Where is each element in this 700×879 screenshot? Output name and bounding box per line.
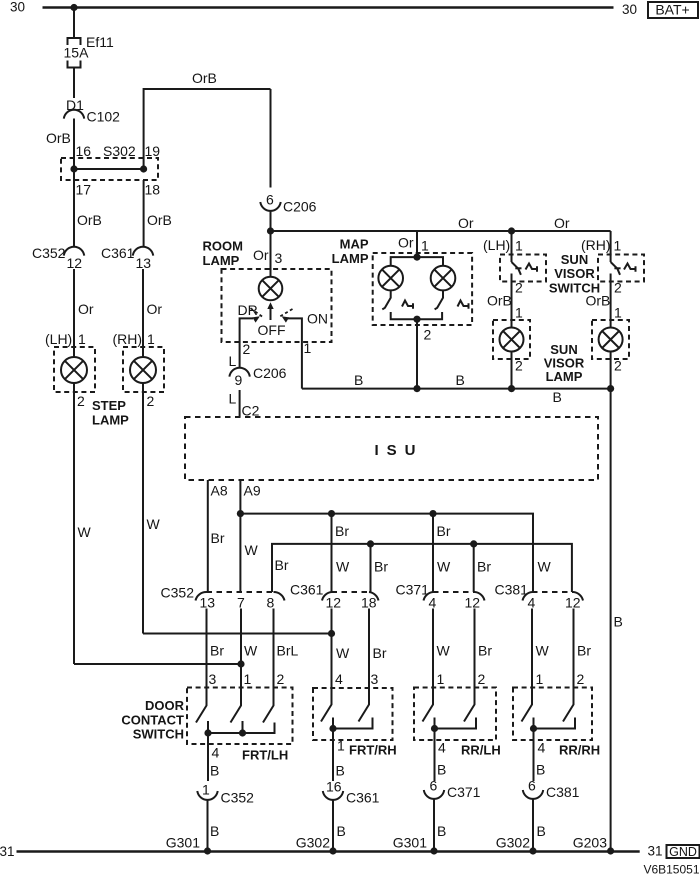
svg-text:2: 2 xyxy=(577,671,585,687)
connector C206 pin 9 xyxy=(229,365,286,388)
svg-text:Br: Br xyxy=(374,559,388,575)
svg-text:12: 12 xyxy=(565,595,581,611)
svg-text:DR: DR xyxy=(238,302,258,318)
svg-text:Br: Br xyxy=(478,643,492,659)
room lamp switch position dashes xyxy=(251,308,264,317)
svg-text:G302: G302 xyxy=(296,835,330,851)
map lamp common bar xyxy=(391,312,442,319)
svg-text:C381: C381 xyxy=(495,582,529,598)
wire C361-12 to door switch pin 4 (W) xyxy=(332,609,351,689)
wire down to C206 pin 6 xyxy=(270,89,272,188)
svg-text:12: 12 xyxy=(465,595,481,611)
node Or distribution xyxy=(267,227,274,234)
node map lamp branch xyxy=(413,254,420,261)
connector C352 pin 1 xyxy=(197,782,254,806)
wire S302-17 down (OrB) xyxy=(74,169,102,247)
wire B down right side to G203 xyxy=(611,389,623,851)
ground G301 xyxy=(166,835,211,855)
svg-text:Or: Or xyxy=(253,247,269,263)
svg-text:1: 1 xyxy=(78,331,86,347)
svg-text:1: 1 xyxy=(536,671,544,687)
svg-text:GND: GND xyxy=(669,845,697,859)
map lamp bulb right xyxy=(431,266,456,291)
svg-text:ISU: ISU xyxy=(375,442,424,459)
svg-text:B: B xyxy=(614,614,623,630)
op ISU module box xyxy=(185,417,598,480)
wire C371-12 to door switch pin 2 (Br) xyxy=(475,609,493,688)
svg-text:12: 12 xyxy=(326,595,342,611)
sun visor lamp RH pin 2 wire (B) xyxy=(611,352,622,389)
ground G203 xyxy=(573,835,614,855)
door switch RR/RH pin 4 wire (B) xyxy=(534,729,601,782)
room lamp bulb xyxy=(259,277,283,301)
svg-text:C352: C352 xyxy=(161,585,195,601)
svg-text:Or: Or xyxy=(78,301,94,317)
connector C352 pin 12 xyxy=(32,245,84,271)
ISU pin A8 wire (Br) xyxy=(208,480,228,592)
sun visor switch RH pin 2 wire (OrB) xyxy=(586,274,623,328)
svg-text:L: L xyxy=(229,353,237,369)
svg-text:A8: A8 xyxy=(211,483,228,499)
wire C361-13 to step lamp RH (Or) xyxy=(143,269,162,357)
svg-text:(RH): (RH) xyxy=(113,331,143,347)
svg-text:19: 19 xyxy=(145,143,161,159)
wire C352-1 to G301 (B) xyxy=(208,799,220,851)
svg-text:C352: C352 xyxy=(221,790,255,806)
svg-text:1: 1 xyxy=(421,238,429,254)
wire step lamp RH down (W) xyxy=(143,383,161,634)
svg-text:(LH): (LH) xyxy=(483,237,510,253)
svg-text:BAT+: BAT+ xyxy=(655,2,689,18)
node 31 ground rail xyxy=(0,844,700,860)
sun visor switch RH xyxy=(598,255,644,282)
svg-text:6: 6 xyxy=(266,192,274,208)
connector C371 row (pins 4 12) xyxy=(396,582,485,611)
svg-text:OrB: OrB xyxy=(77,212,102,228)
connector C381 row (pins 4 12) xyxy=(495,582,584,611)
sun visor switch LH xyxy=(500,255,546,282)
svg-text:2: 2 xyxy=(424,327,432,343)
svg-text:30: 30 xyxy=(10,0,25,15)
svg-text:DOOR: DOOR xyxy=(145,698,185,713)
svg-text:B: B xyxy=(354,372,363,388)
svg-text:9: 9 xyxy=(235,372,243,388)
wire C206-6 to room lamp pin 3 (Or) xyxy=(270,210,272,277)
svg-text:W: W xyxy=(336,559,350,575)
svg-text:4: 4 xyxy=(538,740,546,756)
svg-text:B: B xyxy=(536,762,545,778)
svg-text:8: 8 xyxy=(267,595,275,611)
svg-text:OrB: OrB xyxy=(192,70,217,86)
step lamp LH xyxy=(54,347,95,392)
svg-text:BrL: BrL xyxy=(277,643,299,659)
wire C352-12 to step lamp LH (Or) xyxy=(74,269,94,357)
svg-text:1: 1 xyxy=(437,671,445,687)
svg-text:13: 13 xyxy=(200,595,216,611)
svg-text:4: 4 xyxy=(438,740,446,756)
svg-text:W: W xyxy=(245,542,259,558)
svg-text:18: 18 xyxy=(361,595,377,611)
svg-text:16: 16 xyxy=(76,143,92,159)
svg-text:15A: 15A xyxy=(64,45,90,61)
map lamp pin 1 (Or) xyxy=(398,231,429,257)
svg-text:1: 1 xyxy=(614,305,622,321)
wire C371-4 to door switch pin 1 (W) xyxy=(433,609,451,688)
connector C206 pin 6 xyxy=(260,192,316,215)
room lamp assembly box xyxy=(222,269,332,342)
svg-text:1: 1 xyxy=(614,238,622,254)
connector C102 pin D1 xyxy=(64,97,120,125)
sun visor lamp LH pin 2 wire (B) xyxy=(512,352,524,389)
svg-text:3: 3 xyxy=(371,671,379,687)
map lamp pin 2 wire (B) xyxy=(417,319,432,388)
wire fuse to C102 xyxy=(73,68,75,99)
svg-text:G203: G203 xyxy=(573,835,607,851)
svg-text:C361: C361 xyxy=(101,245,135,261)
svg-text:A9: A9 xyxy=(244,483,261,499)
svg-text:G301: G301 xyxy=(393,835,427,851)
svg-text:3: 3 xyxy=(209,671,217,687)
svg-text:3: 3 xyxy=(275,250,283,266)
svg-text:V6B15051: V6B15051 xyxy=(643,863,699,877)
map lamp assembly box xyxy=(373,253,472,325)
wire W bus drop to C361-12 xyxy=(332,514,351,592)
wire C381-12 to door switch pin 2 (Br) xyxy=(574,609,592,688)
connector C381 pin 6 xyxy=(523,778,580,801)
svg-text:OrB: OrB xyxy=(487,293,512,309)
svg-text:MAP: MAP xyxy=(340,237,369,252)
wire step lamp RH to C361-12 node xyxy=(143,633,332,635)
wire B return line xyxy=(302,372,611,405)
svg-text:ROOM: ROOM xyxy=(203,239,243,254)
map lamp bulb left xyxy=(378,266,403,291)
GND box xyxy=(667,845,700,858)
svg-text:C371: C371 xyxy=(396,582,430,598)
svg-text:B: B xyxy=(210,823,219,839)
splice S302 xyxy=(61,143,160,198)
svg-text:Or: Or xyxy=(554,215,570,231)
svg-text:B: B xyxy=(336,763,345,779)
wire C206-9 to ISU pin C2 (L) xyxy=(229,390,260,419)
svg-text:2: 2 xyxy=(147,393,155,409)
wire C352-13 to door switch pin 3 (Br) xyxy=(207,609,225,688)
ground G302 xyxy=(296,835,337,855)
svg-text:W: W xyxy=(336,645,350,661)
svg-text:Br: Br xyxy=(335,523,349,539)
svg-text:B: B xyxy=(553,389,562,405)
svg-text:C206: C206 xyxy=(283,199,317,215)
svg-text:C361: C361 xyxy=(346,790,380,806)
sun visor switch RH pin 1 xyxy=(581,231,622,262)
room lamp ON contact wire xyxy=(280,314,302,389)
svg-text:OFF: OFF xyxy=(258,322,286,338)
svg-text:6: 6 xyxy=(430,778,438,794)
sun visor switch LH pin 1 xyxy=(483,231,523,262)
ISU pin A9 wire (W) xyxy=(240,480,260,592)
svg-text:OrB: OrB xyxy=(586,293,611,309)
wire S302-18 down (OrB) xyxy=(144,180,172,247)
svg-text:B: B xyxy=(437,762,446,778)
svg-text:LAMP: LAMP xyxy=(332,251,369,266)
door contact switch RR/RH xyxy=(513,688,592,741)
svg-text:2: 2 xyxy=(243,341,251,357)
svg-text:Br: Br xyxy=(275,557,289,573)
svg-text:4: 4 xyxy=(212,745,220,761)
fuse Ef11 15A xyxy=(64,34,114,68)
svg-text:1: 1 xyxy=(337,738,345,754)
svg-text:B: B xyxy=(537,823,546,839)
svg-text:C102: C102 xyxy=(87,109,121,125)
wire Br bus xyxy=(272,544,572,592)
svg-text:1: 1 xyxy=(304,340,312,356)
svg-text:W: W xyxy=(244,643,258,659)
wire C361-16 to G302 (B) xyxy=(333,799,346,851)
svg-text:31: 31 xyxy=(648,844,663,859)
wire step lamp LH down (W) xyxy=(74,383,92,664)
svg-text:C352: C352 xyxy=(32,245,66,261)
svg-text:FRT/LH: FRT/LH xyxy=(242,748,288,763)
door switch FRT/LH pin 4 wire (B) xyxy=(208,733,288,781)
room lamp DR contact wire xyxy=(240,314,262,369)
svg-text:Br: Br xyxy=(577,643,591,659)
svg-text:G301: G301 xyxy=(166,835,200,851)
svg-text:B: B xyxy=(437,823,446,839)
svg-text:2: 2 xyxy=(478,671,486,687)
wire C102 to S302 (OrB) xyxy=(46,119,74,170)
connector C361 row (pins 12 18) xyxy=(290,582,379,611)
svg-text:Br: Br xyxy=(210,643,224,659)
svg-text:W: W xyxy=(437,643,451,659)
door contact switch FRT/LH xyxy=(187,688,293,745)
svg-text:B: B xyxy=(210,763,219,779)
svg-text:W: W xyxy=(147,516,161,532)
svg-text:W: W xyxy=(536,643,550,659)
svg-text:1: 1 xyxy=(202,782,210,798)
svg-text:FRT/RH: FRT/RH xyxy=(349,743,397,758)
step lamp RH xyxy=(123,347,164,392)
svg-text:VISOR: VISOR xyxy=(554,266,595,281)
wire C361-18 to door switch pin 3 (Br) xyxy=(369,609,387,689)
svg-text:G302: G302 xyxy=(496,835,530,851)
svg-text:2: 2 xyxy=(515,280,523,296)
svg-text:4: 4 xyxy=(429,595,437,611)
svg-text:CONTACT: CONTACT xyxy=(121,712,184,727)
svg-text:31: 31 xyxy=(0,844,15,859)
svg-text:(LH): (LH) xyxy=(45,331,72,347)
svg-text:LAMP: LAMP xyxy=(546,369,583,384)
map lamp switch right xyxy=(435,290,469,309)
wire Or line to sun visor switches xyxy=(271,215,611,231)
svg-text:RR/RH: RR/RH xyxy=(559,743,600,758)
door switch RR/LH pin 4 wire (B) xyxy=(435,729,501,782)
svg-text:SWITCH: SWITCH xyxy=(133,727,184,742)
svg-text:18: 18 xyxy=(145,182,161,198)
junction on 30 rail xyxy=(70,4,77,11)
svg-text:Br: Br xyxy=(373,645,387,661)
svg-text:2: 2 xyxy=(515,358,523,374)
node sun visor LH tap xyxy=(508,227,515,234)
wire S302-19 up and over to C206 (OrB) xyxy=(144,70,271,169)
wire rail to fuse xyxy=(73,8,75,39)
svg-text:(RH): (RH) xyxy=(581,237,611,253)
wire C381-6 to G302 (B) xyxy=(533,798,546,851)
svg-text:C371: C371 xyxy=(447,784,481,800)
svg-text:OrB: OrB xyxy=(46,130,71,146)
connector C371 pin 6 xyxy=(424,778,481,801)
wire W bus drop to C371-4 xyxy=(433,514,451,592)
door contact switch RR/LH xyxy=(414,688,496,741)
BAT+ box xyxy=(648,2,698,18)
sun visor lamp RH xyxy=(592,320,629,359)
room lamp switch common arrow xyxy=(267,302,273,320)
svg-text:OrB: OrB xyxy=(147,212,172,228)
svg-text:2: 2 xyxy=(77,393,85,409)
svg-text:1: 1 xyxy=(147,331,155,347)
svg-text:SUN: SUN xyxy=(561,252,588,267)
svg-text:B: B xyxy=(456,372,465,388)
node 30 rail (battery feed) xyxy=(10,0,698,18)
svg-text:C361: C361 xyxy=(290,582,324,598)
svg-text:2: 2 xyxy=(614,358,622,374)
svg-text:Or: Or xyxy=(147,301,163,317)
wire C352-7 to door switch pin 1 (W) xyxy=(241,609,258,688)
svg-text:12: 12 xyxy=(67,255,83,271)
svg-text:1: 1 xyxy=(515,305,523,321)
svg-text:1: 1 xyxy=(515,238,523,254)
svg-text:7: 7 xyxy=(237,595,245,611)
svg-text:2: 2 xyxy=(614,280,622,296)
svg-text:C206: C206 xyxy=(253,365,287,381)
ground G301 rear xyxy=(393,835,438,855)
wire Br bus drop to C361-18 xyxy=(371,544,389,592)
svg-text:C381: C381 xyxy=(546,784,580,800)
svg-text:ON: ON xyxy=(307,311,328,327)
svg-text:Or: Or xyxy=(398,235,414,251)
svg-text:6: 6 xyxy=(528,778,536,794)
connector C361 pin 13 xyxy=(101,245,153,271)
door switch FRT/RH pin 1 wire (B) xyxy=(333,729,397,782)
svg-text:1: 1 xyxy=(244,671,252,687)
svg-text:16: 16 xyxy=(326,779,342,795)
svg-text:4: 4 xyxy=(335,671,343,687)
svg-text:LAMP: LAMP xyxy=(92,413,129,428)
wire map lamp branch xyxy=(391,257,443,266)
connector C361 pin 16 xyxy=(323,779,380,806)
wire Br bus drop to C371-12 xyxy=(474,544,492,592)
door contact switch FRT/RH xyxy=(313,688,393,740)
svg-text:W: W xyxy=(78,524,92,540)
svg-text:4: 4 xyxy=(528,595,536,611)
wire W bus from A9 xyxy=(240,514,533,592)
map lamp switch left xyxy=(382,290,413,309)
svg-text:W: W xyxy=(538,559,552,575)
connector C352 row (pins 13 7 8) xyxy=(161,585,285,611)
svg-text:17: 17 xyxy=(76,182,92,198)
ground G302 rear xyxy=(496,835,537,855)
svg-text:Br: Br xyxy=(437,523,451,539)
svg-text:LAMP: LAMP xyxy=(203,253,240,268)
svg-text:2: 2 xyxy=(277,671,285,687)
sun visor switch LH pin 2 wire (OrB) xyxy=(487,274,523,328)
wire C352-8 to door switch pin 2 (BrL) xyxy=(274,609,299,688)
wire C381-4 to door switch pin 1 (W) xyxy=(532,609,550,688)
svg-text:Ef11: Ef11 xyxy=(86,34,114,50)
wire C371-6 to G301 (B) xyxy=(434,798,446,851)
svg-text:13: 13 xyxy=(136,255,152,271)
svg-text:RR/LH: RR/LH xyxy=(461,743,501,758)
svg-text:STEP: STEP xyxy=(92,398,126,413)
svg-text:Or: Or xyxy=(458,215,474,231)
wire step lamp LH to C352-7 node xyxy=(74,663,241,665)
sun visor lamp LH xyxy=(493,320,530,359)
svg-text:Br: Br xyxy=(211,530,225,546)
svg-text:B: B xyxy=(337,823,346,839)
svg-text:Br: Br xyxy=(477,559,491,575)
svg-text:L: L xyxy=(229,391,237,407)
svg-text:S302: S302 xyxy=(103,143,136,159)
svg-text:30: 30 xyxy=(622,2,637,17)
svg-text:W: W xyxy=(437,559,451,575)
